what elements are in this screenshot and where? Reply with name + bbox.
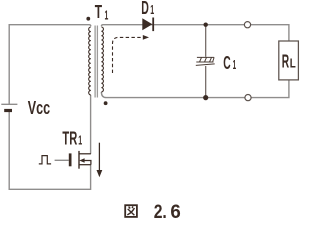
svg-text:Vcc: Vcc xyxy=(28,98,50,118)
svg-text:R: R xyxy=(282,52,289,72)
svg-text:1: 1 xyxy=(105,7,109,22)
svg-text:C: C xyxy=(223,53,230,73)
svg-text:1: 1 xyxy=(78,132,82,147)
svg-text:T: T xyxy=(95,2,102,22)
svg-text:6: 6 xyxy=(170,201,181,223)
svg-text:2.: 2. xyxy=(154,201,167,223)
svg-text:D: D xyxy=(141,0,149,18)
svg-text:L: L xyxy=(290,56,296,71)
svg-text:1: 1 xyxy=(233,57,237,72)
svg-text:TR: TR xyxy=(62,128,77,148)
svg-text:1: 1 xyxy=(150,2,154,17)
